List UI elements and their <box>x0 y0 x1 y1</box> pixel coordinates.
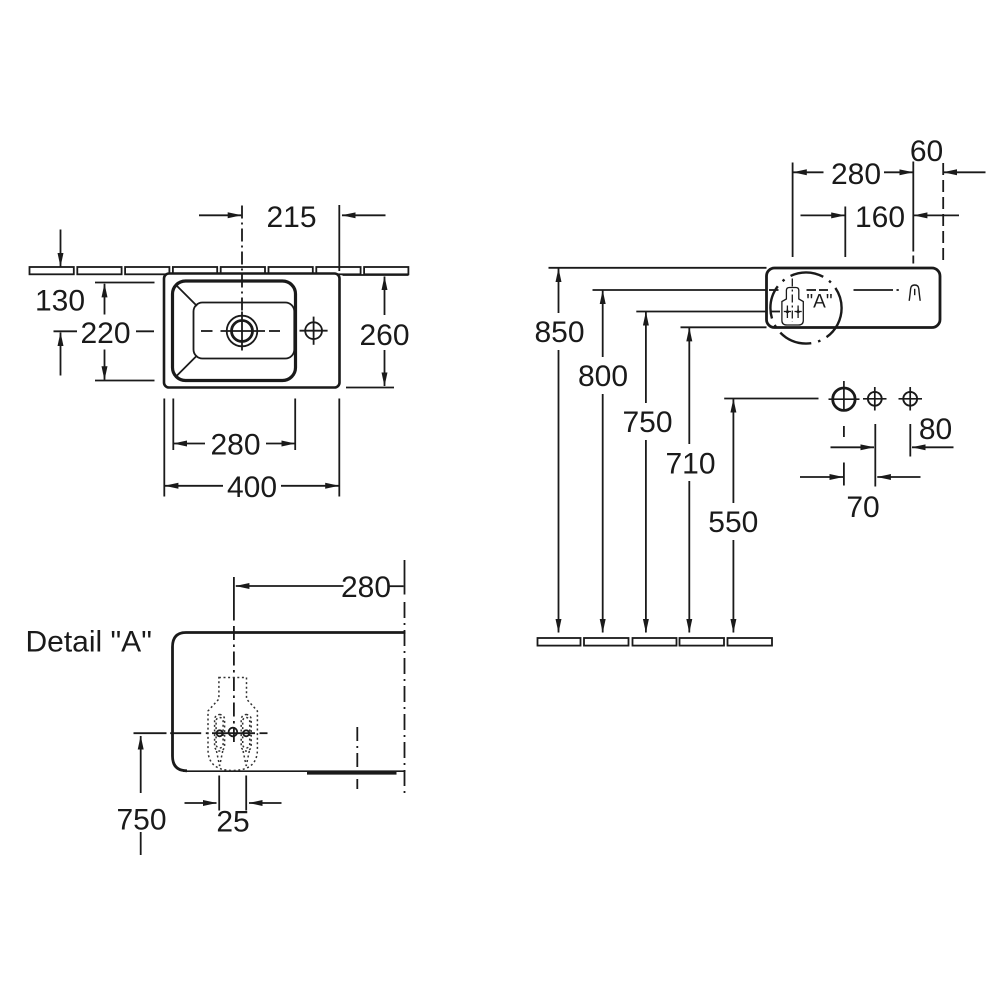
level line 550 <box>724 398 818 400</box>
svg-text:550: 550 <box>708 506 758 539</box>
svg-text:"A": "A" <box>806 292 832 313</box>
side hole centerline <box>356 727 358 789</box>
left slot outer <box>215 715 225 752</box>
centerline vertical detail <box>233 626 235 745</box>
svg-text:800: 800 <box>578 360 628 393</box>
hidden line 800 inside <box>769 289 779 291</box>
fixture flask outline <box>208 678 257 771</box>
svg-text:280: 280 <box>341 571 391 604</box>
svg-text:70: 70 <box>846 491 879 524</box>
level line 800 <box>593 289 771 291</box>
right slot inner <box>243 718 250 749</box>
detail bowl edge thick <box>307 772 397 775</box>
fixture symbol front <box>782 279 803 326</box>
dims 80 / 70 <box>800 424 954 487</box>
left screw circle <box>217 730 223 736</box>
basin outer rim <box>164 274 340 388</box>
dim 550 line <box>732 399 734 503</box>
tap centerline vertical <box>241 206 243 312</box>
detail bottom edge <box>183 770 405 772</box>
side hole crosshair <box>300 330 328 332</box>
right slot outer <box>241 715 251 752</box>
drain circle <box>833 388 855 410</box>
tap glyph <box>909 285 920 301</box>
left slot tail <box>217 751 223 766</box>
fixture detail dotted <box>208 678 257 771</box>
bowl bottom <box>194 303 295 359</box>
svg-text:80: 80 <box>919 413 952 446</box>
dim 280 front <box>793 171 823 173</box>
dash-dot to tap <box>854 289 894 291</box>
svg-text:710: 710 <box>665 447 715 480</box>
svg-text:260: 260 <box>359 319 409 352</box>
tap hole outer <box>227 316 258 347</box>
wall tile row <box>30 267 409 274</box>
floor tile row <box>538 638 773 646</box>
level line 710 <box>681 326 767 328</box>
svg-text:850: 850 <box>534 316 584 349</box>
svg-text:60: 60 <box>910 135 943 168</box>
connection circles <box>829 381 923 412</box>
dim 25 <box>218 776 220 811</box>
dim 60 <box>943 171 985 173</box>
dim 160 <box>801 214 845 216</box>
hidden line 750 inside <box>770 311 780 313</box>
plan dimensions <box>61 205 409 497</box>
svg-text:220: 220 <box>80 317 130 350</box>
svg-text:215: 215 <box>266 201 316 234</box>
left slot inner <box>216 718 223 749</box>
dim 215 <box>199 214 241 216</box>
level line 850 <box>549 267 767 269</box>
svg-text:750: 750 <box>116 804 166 837</box>
svg-text:25: 25 <box>216 806 249 839</box>
dim 750 detail <box>140 736 142 749</box>
svg-text:130: 130 <box>35 285 85 318</box>
dim 130 arrows <box>60 230 62 267</box>
side hole <box>305 322 322 339</box>
tap hole crosshair <box>221 330 266 332</box>
right slot tail <box>243 751 249 766</box>
tap hole inner <box>232 321 253 342</box>
svg-text:280: 280 <box>831 158 881 191</box>
detail circle A <box>770 272 841 343</box>
dim 850 line <box>558 269 560 314</box>
svg-text:750: 750 <box>622 406 672 439</box>
centerline horizontal detail <box>170 732 201 734</box>
level line 750 <box>636 311 768 313</box>
bowl rim <box>173 281 296 381</box>
basin body <box>767 268 941 328</box>
detail body outline <box>173 633 406 771</box>
vertical height dims <box>559 269 734 633</box>
dim 280 detail <box>236 585 344 587</box>
right boundary centerline <box>404 560 406 595</box>
bowl corner diagonal bottom-left <box>177 356 197 376</box>
horizontal centerline dashes <box>54 330 78 332</box>
svg-text:280: 280 <box>210 429 260 462</box>
dim 710 line <box>688 328 690 444</box>
bowl corner diagonal top-left <box>177 286 197 306</box>
dim 220 arrows <box>104 284 106 315</box>
supply circle right <box>903 392 917 406</box>
supply circle left <box>868 392 882 406</box>
right screw circle <box>243 730 249 736</box>
svg-text:160: 160 <box>855 201 905 234</box>
dim 750 line <box>645 312 647 403</box>
upper dims of front view <box>793 162 986 269</box>
dim 260 arrows <box>384 277 386 316</box>
center hole circle <box>229 728 238 737</box>
dim 800 line <box>602 291 604 358</box>
svg-text:Detail "A": Detail "A" <box>26 626 152 659</box>
svg-text:400: 400 <box>227 471 277 504</box>
dim 400 <box>165 485 223 487</box>
dim 280 plan <box>174 443 206 445</box>
